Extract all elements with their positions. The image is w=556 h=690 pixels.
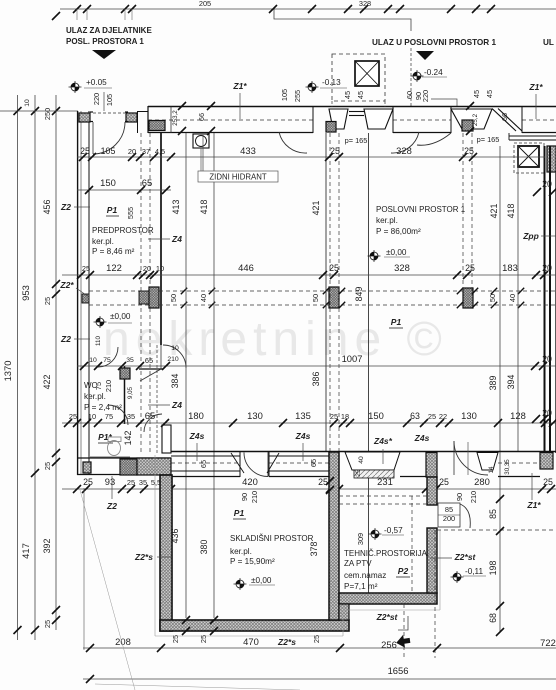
svg-text:10: 10 bbox=[171, 345, 179, 352]
svg-text:-0.13: -0.13 bbox=[322, 78, 341, 87]
svg-text:380: 380 bbox=[199, 540, 209, 555]
svg-text:309: 309 bbox=[356, 533, 365, 545]
svg-text:392: 392 bbox=[42, 539, 52, 554]
svg-text:±0,00: ±0,00 bbox=[110, 312, 131, 321]
svg-text:50: 50 bbox=[311, 294, 320, 302]
svg-text:208: 208 bbox=[115, 636, 131, 647]
svg-text:65: 65 bbox=[309, 459, 318, 467]
svg-text:20: 20 bbox=[542, 179, 552, 189]
svg-text:25: 25 bbox=[43, 297, 52, 305]
svg-text:Z2: Z2 bbox=[60, 334, 71, 344]
svg-text:50: 50 bbox=[169, 294, 178, 302]
svg-text:200: 200 bbox=[443, 514, 455, 523]
svg-text:9,05: 9,05 bbox=[127, 386, 134, 399]
svg-text:-0,57: -0,57 bbox=[384, 526, 403, 535]
svg-text:25: 25 bbox=[199, 635, 208, 643]
svg-text:25: 25 bbox=[43, 620, 52, 628]
svg-text:±0,00: ±0,00 bbox=[251, 576, 272, 585]
svg-text:90: 90 bbox=[455, 493, 464, 501]
svg-text:20: 20 bbox=[128, 147, 136, 156]
svg-text:65: 65 bbox=[142, 177, 152, 188]
svg-text:328: 328 bbox=[359, 0, 371, 8]
svg-text:25: 25 bbox=[464, 146, 474, 156]
svg-text:P = 86,00m²: P = 86,00m² bbox=[376, 227, 421, 236]
svg-text:66: 66 bbox=[500, 113, 509, 121]
svg-text:PREDPROSTOR: PREDPROSTOR bbox=[92, 226, 154, 235]
svg-text:75: 75 bbox=[105, 412, 113, 421]
svg-text:25: 25 bbox=[330, 146, 340, 156]
svg-text:P = 15,90m²: P = 15,90m² bbox=[230, 557, 275, 566]
svg-text:250: 250 bbox=[43, 108, 52, 120]
svg-text:470: 470 bbox=[243, 636, 259, 647]
svg-text:25: 25 bbox=[355, 469, 362, 477]
svg-text:25: 25 bbox=[439, 477, 449, 487]
svg-text:446: 446 bbox=[238, 262, 254, 273]
svg-text:25: 25 bbox=[69, 412, 77, 421]
svg-text:255: 255 bbox=[293, 90, 302, 102]
svg-text:722: 722 bbox=[540, 637, 556, 648]
svg-text:90: 90 bbox=[240, 493, 249, 501]
svg-text:210: 210 bbox=[469, 491, 478, 503]
svg-text:220: 220 bbox=[421, 90, 430, 102]
svg-text:25: 25 bbox=[465, 263, 475, 273]
svg-text:20: 20 bbox=[542, 263, 552, 273]
svg-text:456: 456 bbox=[42, 200, 52, 215]
svg-text:Z2*s: Z2*s bbox=[277, 637, 296, 647]
svg-text:389: 389 bbox=[488, 376, 498, 391]
svg-text:1656: 1656 bbox=[388, 665, 409, 676]
svg-text:422: 422 bbox=[42, 375, 52, 390]
svg-text:10: 10 bbox=[88, 412, 96, 421]
svg-text:ULAZ U POSLOVNI PROSTOR 1: ULAZ U POSLOVNI PROSTOR 1 bbox=[372, 38, 496, 47]
svg-text:253,2: 253,2 bbox=[172, 110, 179, 126]
svg-text:p= 165: p= 165 bbox=[477, 135, 500, 144]
svg-text:386: 386 bbox=[311, 372, 321, 387]
svg-text:Z4: Z4 bbox=[171, 400, 182, 410]
svg-text:110: 110 bbox=[95, 336, 102, 346]
svg-text:POSL. PROSTORA 1: POSL. PROSTORA 1 bbox=[66, 37, 144, 46]
svg-text:14: 14 bbox=[488, 466, 495, 473]
svg-text:Z2: Z2 bbox=[106, 501, 117, 511]
svg-text:-0,11: -0,11 bbox=[465, 567, 483, 576]
svg-text:+0.05: +0.05 bbox=[86, 78, 107, 87]
svg-text:93: 93 bbox=[105, 476, 115, 487]
svg-text:P1: P1 bbox=[234, 508, 245, 518]
svg-text:45: 45 bbox=[472, 90, 481, 98]
svg-text:417: 417 bbox=[20, 543, 31, 559]
svg-text:35: 35 bbox=[139, 478, 147, 487]
svg-text:cem.namaz: cem.namaz bbox=[344, 571, 386, 580]
svg-text:418: 418 bbox=[506, 204, 516, 219]
svg-text:65: 65 bbox=[145, 356, 153, 365]
svg-text:ZA PTV: ZA PTV bbox=[344, 559, 372, 568]
svg-text:210: 210 bbox=[250, 491, 259, 503]
svg-text:Z4s: Z4s bbox=[295, 431, 311, 441]
svg-text:180: 180 bbox=[188, 410, 204, 421]
svg-text:Z1*: Z1* bbox=[232, 81, 247, 91]
svg-text:433: 433 bbox=[240, 145, 256, 156]
svg-text:25: 25 bbox=[543, 477, 553, 487]
svg-text:37: 37 bbox=[142, 147, 150, 156]
svg-text:ker.pl.: ker.pl. bbox=[84, 392, 106, 401]
svg-text:1007: 1007 bbox=[342, 353, 363, 364]
svg-text:ker.pl.: ker.pl. bbox=[92, 237, 114, 246]
svg-text:10: 10 bbox=[156, 264, 164, 273]
svg-text:P1: P1 bbox=[107, 205, 118, 215]
svg-text:60: 60 bbox=[405, 91, 414, 99]
svg-text:68: 68 bbox=[488, 613, 498, 623]
svg-text:150: 150 bbox=[368, 410, 384, 421]
svg-text:394: 394 bbox=[506, 375, 516, 390]
svg-text:UL: UL bbox=[543, 38, 554, 47]
svg-text:198: 198 bbox=[488, 561, 498, 576]
svg-text:Z2*: Z2* bbox=[59, 280, 74, 290]
svg-text:25: 25 bbox=[43, 462, 52, 470]
svg-text:30,35: 30,35 bbox=[504, 459, 511, 475]
svg-text:75: 75 bbox=[94, 382, 103, 390]
svg-text:122: 122 bbox=[106, 262, 122, 273]
svg-text:65: 65 bbox=[199, 460, 208, 468]
svg-text:ker.pl.: ker.pl. bbox=[230, 547, 252, 556]
svg-text:256: 256 bbox=[381, 639, 397, 650]
svg-text:25: 25 bbox=[428, 412, 436, 421]
svg-text:183: 183 bbox=[502, 262, 518, 273]
svg-text:45: 45 bbox=[485, 90, 494, 98]
svg-text:Z4s*: Z4s* bbox=[373, 436, 393, 446]
svg-text:45: 45 bbox=[356, 91, 365, 99]
svg-text:142: 142 bbox=[123, 431, 133, 446]
svg-text:TEHNIČ.PROSTORIJA.: TEHNIČ.PROSTORIJA. bbox=[344, 549, 429, 558]
svg-text:ULAZ ZA DJELATNIKE: ULAZ ZA DJELATNIKE bbox=[66, 26, 152, 35]
svg-text:378: 378 bbox=[309, 542, 319, 557]
svg-text:328: 328 bbox=[394, 262, 410, 273]
svg-text:85: 85 bbox=[445, 505, 453, 514]
svg-text:25: 25 bbox=[171, 635, 180, 643]
svg-text:421: 421 bbox=[489, 204, 499, 219]
svg-text:25: 25 bbox=[127, 478, 135, 487]
svg-text:418: 418 bbox=[199, 200, 209, 215]
svg-text:10: 10 bbox=[89, 357, 97, 364]
svg-text:Z4s: Z4s bbox=[189, 431, 205, 441]
svg-text:40: 40 bbox=[508, 294, 517, 302]
svg-text:25: 25 bbox=[312, 635, 321, 643]
svg-text:220: 220 bbox=[92, 93, 101, 105]
svg-text:35: 35 bbox=[127, 412, 135, 421]
svg-text:P1: P1 bbox=[391, 317, 402, 327]
svg-text:128: 128 bbox=[510, 410, 526, 421]
svg-text:555: 555 bbox=[126, 207, 135, 219]
svg-text:POSLOVNI PROSTOR 1: POSLOVNI PROSTOR 1 bbox=[376, 205, 466, 214]
svg-text:Zpp: Zpp bbox=[522, 231, 539, 241]
svg-text:22: 22 bbox=[439, 412, 447, 421]
svg-text:85: 85 bbox=[488, 509, 498, 519]
svg-text:Z2*st: Z2*st bbox=[376, 612, 399, 622]
svg-text:25: 25 bbox=[329, 263, 339, 273]
svg-text:25,2: 25,2 bbox=[472, 113, 479, 126]
svg-text:P = 8,46 m²: P = 8,46 m² bbox=[92, 247, 135, 256]
svg-text:Z1*: Z1* bbox=[526, 500, 541, 510]
svg-text:P = 2,4 m²: P = 2,4 m² bbox=[84, 403, 122, 412]
svg-text:328: 328 bbox=[396, 145, 412, 156]
svg-text:20: 20 bbox=[542, 354, 552, 364]
svg-text:849: 849 bbox=[354, 287, 364, 302]
svg-text:Z4s: Z4s bbox=[414, 433, 430, 443]
svg-text:205: 205 bbox=[199, 0, 211, 8]
svg-text:50: 50 bbox=[488, 294, 497, 302]
svg-text:Z2*st: Z2*st bbox=[454, 552, 477, 562]
svg-text:18: 18 bbox=[341, 412, 349, 421]
svg-text:420: 420 bbox=[242, 476, 258, 487]
svg-text:ZIDNI HIDRANT: ZIDNI HIDRANT bbox=[209, 173, 266, 182]
svg-text:130: 130 bbox=[247, 410, 263, 421]
svg-text:65: 65 bbox=[145, 410, 155, 421]
svg-text:66: 66 bbox=[197, 113, 206, 121]
svg-text:p= 165: p= 165 bbox=[345, 136, 368, 145]
svg-text:25: 25 bbox=[83, 477, 93, 487]
svg-text:105: 105 bbox=[101, 146, 116, 156]
svg-text:40: 40 bbox=[199, 294, 208, 302]
svg-text:25: 25 bbox=[82, 264, 90, 273]
svg-text:P=7,1 m²: P=7,1 m² bbox=[344, 582, 378, 591]
svg-text:10: 10 bbox=[24, 99, 31, 107]
svg-text:-0.24: -0.24 bbox=[424, 68, 443, 77]
svg-text:4,5: 4,5 bbox=[155, 147, 165, 156]
svg-text:1370: 1370 bbox=[2, 361, 13, 382]
svg-text:Z1*: Z1* bbox=[528, 82, 543, 92]
svg-text:P2: P2 bbox=[398, 566, 409, 576]
svg-text:135: 135 bbox=[295, 410, 311, 421]
svg-text:20: 20 bbox=[143, 264, 151, 273]
svg-text:±0,00: ±0,00 bbox=[386, 248, 407, 257]
svg-text:413: 413 bbox=[171, 200, 181, 215]
svg-text:105: 105 bbox=[105, 94, 114, 106]
svg-text:63: 63 bbox=[410, 411, 420, 421]
svg-text:384: 384 bbox=[170, 374, 180, 389]
svg-text:421: 421 bbox=[311, 201, 321, 216]
svg-text:953: 953 bbox=[20, 285, 31, 301]
svg-text:210: 210 bbox=[167, 356, 179, 363]
svg-text:SKLADIŠNI PROSTOR: SKLADIŠNI PROSTOR bbox=[230, 534, 314, 543]
svg-text:Z4: Z4 bbox=[171, 234, 182, 244]
svg-text:150: 150 bbox=[100, 177, 116, 188]
svg-text:25: 25 bbox=[80, 146, 90, 156]
svg-text:130: 130 bbox=[461, 410, 477, 421]
svg-text:210: 210 bbox=[104, 380, 113, 392]
svg-text:40: 40 bbox=[358, 456, 365, 464]
svg-text:45: 45 bbox=[343, 91, 352, 99]
svg-text:280: 280 bbox=[474, 476, 490, 487]
svg-text:Z2*s: Z2*s bbox=[134, 552, 153, 562]
svg-text:105: 105 bbox=[280, 89, 289, 101]
svg-text:35: 35 bbox=[126, 357, 134, 364]
svg-text:ker.pl.: ker.pl. bbox=[376, 216, 398, 225]
svg-text:Z2: Z2 bbox=[60, 202, 71, 212]
svg-text:25: 25 bbox=[330, 412, 338, 421]
